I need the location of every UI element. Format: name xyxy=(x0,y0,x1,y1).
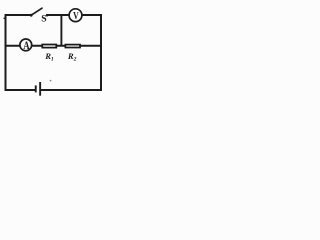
wire bottom-right segment from battery xyxy=(41,89,103,91)
wire middle branch xyxy=(6,45,102,47)
svg-text:V: V xyxy=(73,10,79,22)
resistor R2 xyxy=(65,45,80,63)
wire top-left segment to switch xyxy=(5,14,32,16)
wire junction drop from node to middle branch xyxy=(60,15,62,46)
ammeter A xyxy=(20,38,32,52)
node speck above battery xyxy=(50,80,52,82)
wire right border xyxy=(100,14,102,91)
wire left border xyxy=(5,14,7,91)
switch S xyxy=(30,8,48,24)
node nub on left border xyxy=(3,18,5,20)
resistor R1 xyxy=(42,45,56,63)
svg-text:A: A xyxy=(23,38,30,52)
voltmeter V xyxy=(69,9,82,22)
wire top-right segment from switch through junction to corner xyxy=(46,14,102,16)
wire bottom-left segment to battery xyxy=(5,89,36,91)
battery cell xyxy=(35,82,41,96)
svg-text:S: S xyxy=(41,14,46,25)
